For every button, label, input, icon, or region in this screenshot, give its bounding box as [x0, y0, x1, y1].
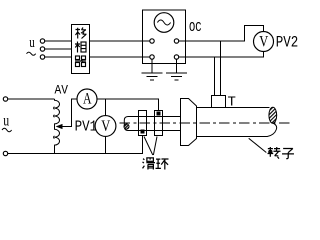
- svg-text:u: u: [29, 33, 35, 50]
- svg-text:A: A: [83, 91, 92, 108]
- svg-text:OC: OC: [189, 20, 202, 36]
- svg-text:V: V: [259, 33, 268, 50]
- svg-text:AV: AV: [55, 83, 69, 98]
- svg-text:T: T: [228, 95, 236, 111]
- svg-text:PV1: PV1: [75, 119, 98, 136]
- svg-text:V: V: [101, 118, 110, 135]
- svg-text:PV2: PV2: [276, 34, 299, 52]
- svg-text:u: u: [3, 112, 9, 130]
